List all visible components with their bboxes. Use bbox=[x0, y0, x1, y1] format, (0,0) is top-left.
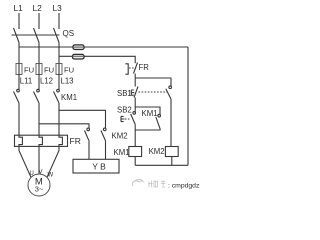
svg-text:FU: FU bbox=[24, 66, 34, 75]
wire bottom bus bbox=[135, 164, 188, 166]
wire L3 stub bbox=[58, 13, 60, 29]
wire KM1 self-hold loop bottom bbox=[135, 129, 160, 131]
contactor KM1 main contact pole3 bbox=[54, 89, 60, 103]
fuse FU3 body bbox=[56, 64, 62, 75]
button SB2 NO contact bbox=[121, 112, 136, 125]
wire phase2 contact to FR heater bbox=[39, 103, 42, 174]
wire through fuse FU2 bbox=[38, 64, 40, 90]
switch QS pole 1 blade bbox=[14, 28, 20, 43]
contact KM2 aux left bbox=[85, 128, 90, 159]
contactor KM1 main contact pole1 bbox=[14, 89, 20, 103]
wire SB1 to node A bbox=[134, 98, 136, 113]
wire through fuse FU3 bbox=[58, 64, 60, 90]
svg-text:FR: FR bbox=[70, 136, 81, 146]
svg-text:Y B: Y B bbox=[92, 162, 106, 172]
svg-text:FR: FR bbox=[139, 63, 150, 72]
svg-text:FU: FU bbox=[64, 66, 74, 75]
fuse FU-B on line B bbox=[73, 54, 85, 59]
button SB1 NO pole2 bbox=[166, 86, 172, 99]
svg-text:KM1: KM1 bbox=[61, 93, 77, 102]
wire phase1 contact to FR heater bbox=[19, 103, 31, 177]
wire through fuse FU1 bbox=[18, 64, 20, 90]
switch QS pole 3 blade bbox=[54, 28, 60, 43]
watermark text bbox=[148, 181, 165, 188]
wire branch to KM2 coil circuit bbox=[135, 78, 171, 86]
fuse FU-A on line A bbox=[73, 45, 84, 50]
wire L2 stub bbox=[38, 13, 40, 29]
contactor KM1 main contact pole2 bbox=[34, 89, 40, 103]
button SB1 NC pole1 bbox=[131, 87, 138, 98]
svg-text:FU: FU bbox=[44, 66, 54, 75]
brake YB box bbox=[73, 159, 119, 173]
svg-text:L1: L1 bbox=[14, 3, 24, 13]
wire FR to SB1 bbox=[134, 74, 136, 87]
wire KM1 coil to bottom bus bbox=[134, 157, 136, 166]
fuse FU1 body bbox=[16, 64, 22, 75]
svg-text:KM2: KM2 bbox=[149, 147, 165, 156]
switch QS pole 2 blade bbox=[34, 28, 40, 43]
svg-text:L12: L12 bbox=[40, 77, 53, 86]
wire phase3 QS to fuse bbox=[58, 43, 60, 64]
svg-text:KM1: KM1 bbox=[114, 148, 130, 157]
wire L1 stub bbox=[18, 13, 20, 29]
wire control feed line A from L1 bbox=[19, 46, 188, 48]
motor M circle bbox=[28, 174, 50, 196]
contact FR NC in control bbox=[125, 63, 137, 75]
svg-text:KM1: KM1 bbox=[142, 109, 158, 118]
wire phase1 QS to fuse bbox=[18, 43, 20, 64]
fuse FU2 body bbox=[36, 64, 42, 75]
svg-text:QS: QS bbox=[63, 29, 75, 38]
contact KM1 aux bbox=[156, 114, 161, 130]
svg-text:SB2: SB2 bbox=[117, 106, 132, 115]
wire phase3 contact to FR heater bbox=[47, 103, 62, 177]
wire KM1 self-hold loop top bbox=[135, 107, 160, 114]
coil KM1 bbox=[129, 147, 142, 157]
wire KM2 coil to bottom bus bbox=[171, 157, 173, 166]
wire tap from phase3 to KM2 right contact bbox=[59, 110, 106, 128]
svg-text:3~: 3~ bbox=[35, 185, 44, 194]
svg-text:L11: L11 bbox=[20, 77, 32, 86]
svg-text:W: W bbox=[48, 173, 54, 179]
svg-text:L2: L2 bbox=[33, 3, 43, 13]
svg-text:KM2: KM2 bbox=[112, 132, 128, 141]
svg-text:L13: L13 bbox=[61, 77, 74, 86]
svg-text:SB1: SB1 bbox=[117, 89, 132, 98]
wire tap from phase2 to KM2 left contact bbox=[39, 124, 89, 129]
coil KM2 bbox=[165, 147, 178, 157]
watermark logo bbox=[132, 179, 143, 186]
wire right bus from line A bbox=[187, 47, 189, 165]
svg-text:: cmpdgdz: : cmpdgdz bbox=[168, 182, 200, 189]
wire SB1 pole2 to KM2 coil bbox=[170, 99, 172, 147]
svg-text:V: V bbox=[39, 170, 43, 176]
svg-text:L3: L3 bbox=[53, 3, 63, 13]
switch QS linkage bar bbox=[12, 34, 60, 36]
wire phase2 QS to fuse bbox=[38, 43, 40, 64]
contact KM2 aux right bbox=[101, 128, 106, 159]
relay FR heater box bbox=[15, 135, 68, 146]
button SB1 linkage dashes bbox=[139, 91, 168, 93]
svg-text:U: U bbox=[30, 171, 34, 177]
wire SB2 to KM1 coil bbox=[134, 124, 136, 146]
wire control feed line B from L3 bbox=[59, 56, 135, 63]
